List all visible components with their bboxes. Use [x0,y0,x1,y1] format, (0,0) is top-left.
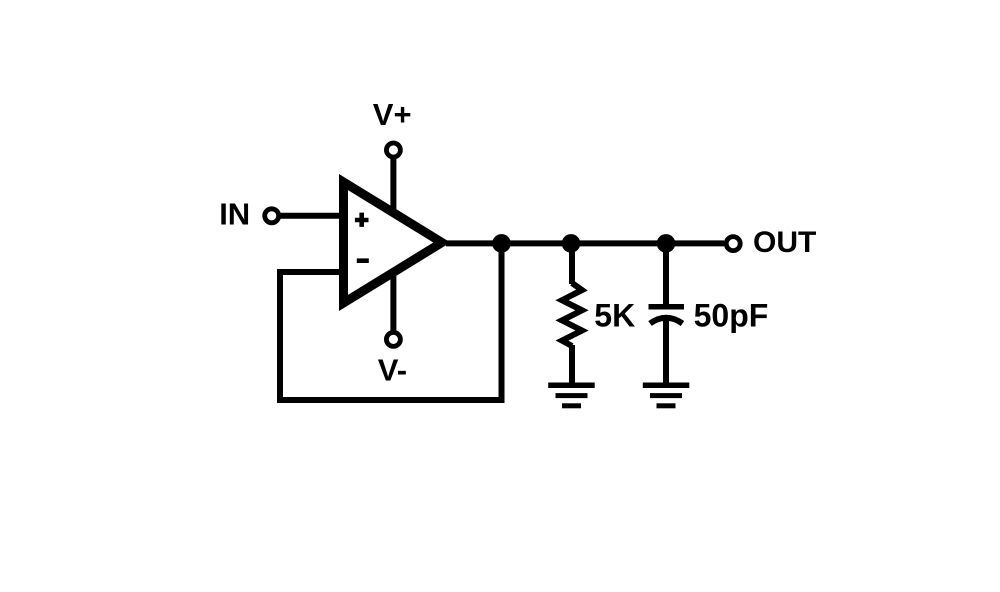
svg-text:OUT: OUT [753,226,816,259]
junction dot node A [492,234,511,253]
junction dot node B [562,234,581,253]
terminal OUT [726,237,740,251]
capacitor C1 curved plate [650,318,683,324]
terminal V+ [386,143,400,157]
capacitor C1 lead top [663,243,669,304]
svg-text:V+: V+ [373,97,412,132]
capacitor C1 lead bottom [663,318,669,383]
op-amp plus input marker [355,213,369,227]
resistor R1 lead bottom [569,345,575,383]
junction dot node C [657,234,676,253]
ground (resistor) [548,383,595,409]
resistor R1 lead top [569,243,575,284]
svg-text:V-: V- [378,353,407,388]
ground (capacitor) [643,383,690,409]
op-amp minus input marker [357,258,369,263]
wire feedback loop [280,243,502,400]
capacitor C1 top plate [649,304,685,310]
op-amp U1 [339,174,451,311]
terminal V- [386,332,400,346]
svg-text:5K: 5K [594,298,635,334]
wire output [446,240,724,246]
wire V- [390,274,396,331]
terminal IN [265,209,279,223]
svg-text:IN: IN [219,197,250,232]
resistor R1 [562,283,582,346]
svg-text:50pF: 50pF [694,298,769,334]
wire IN to op-amp [281,213,348,219]
wire V+ [390,158,396,212]
